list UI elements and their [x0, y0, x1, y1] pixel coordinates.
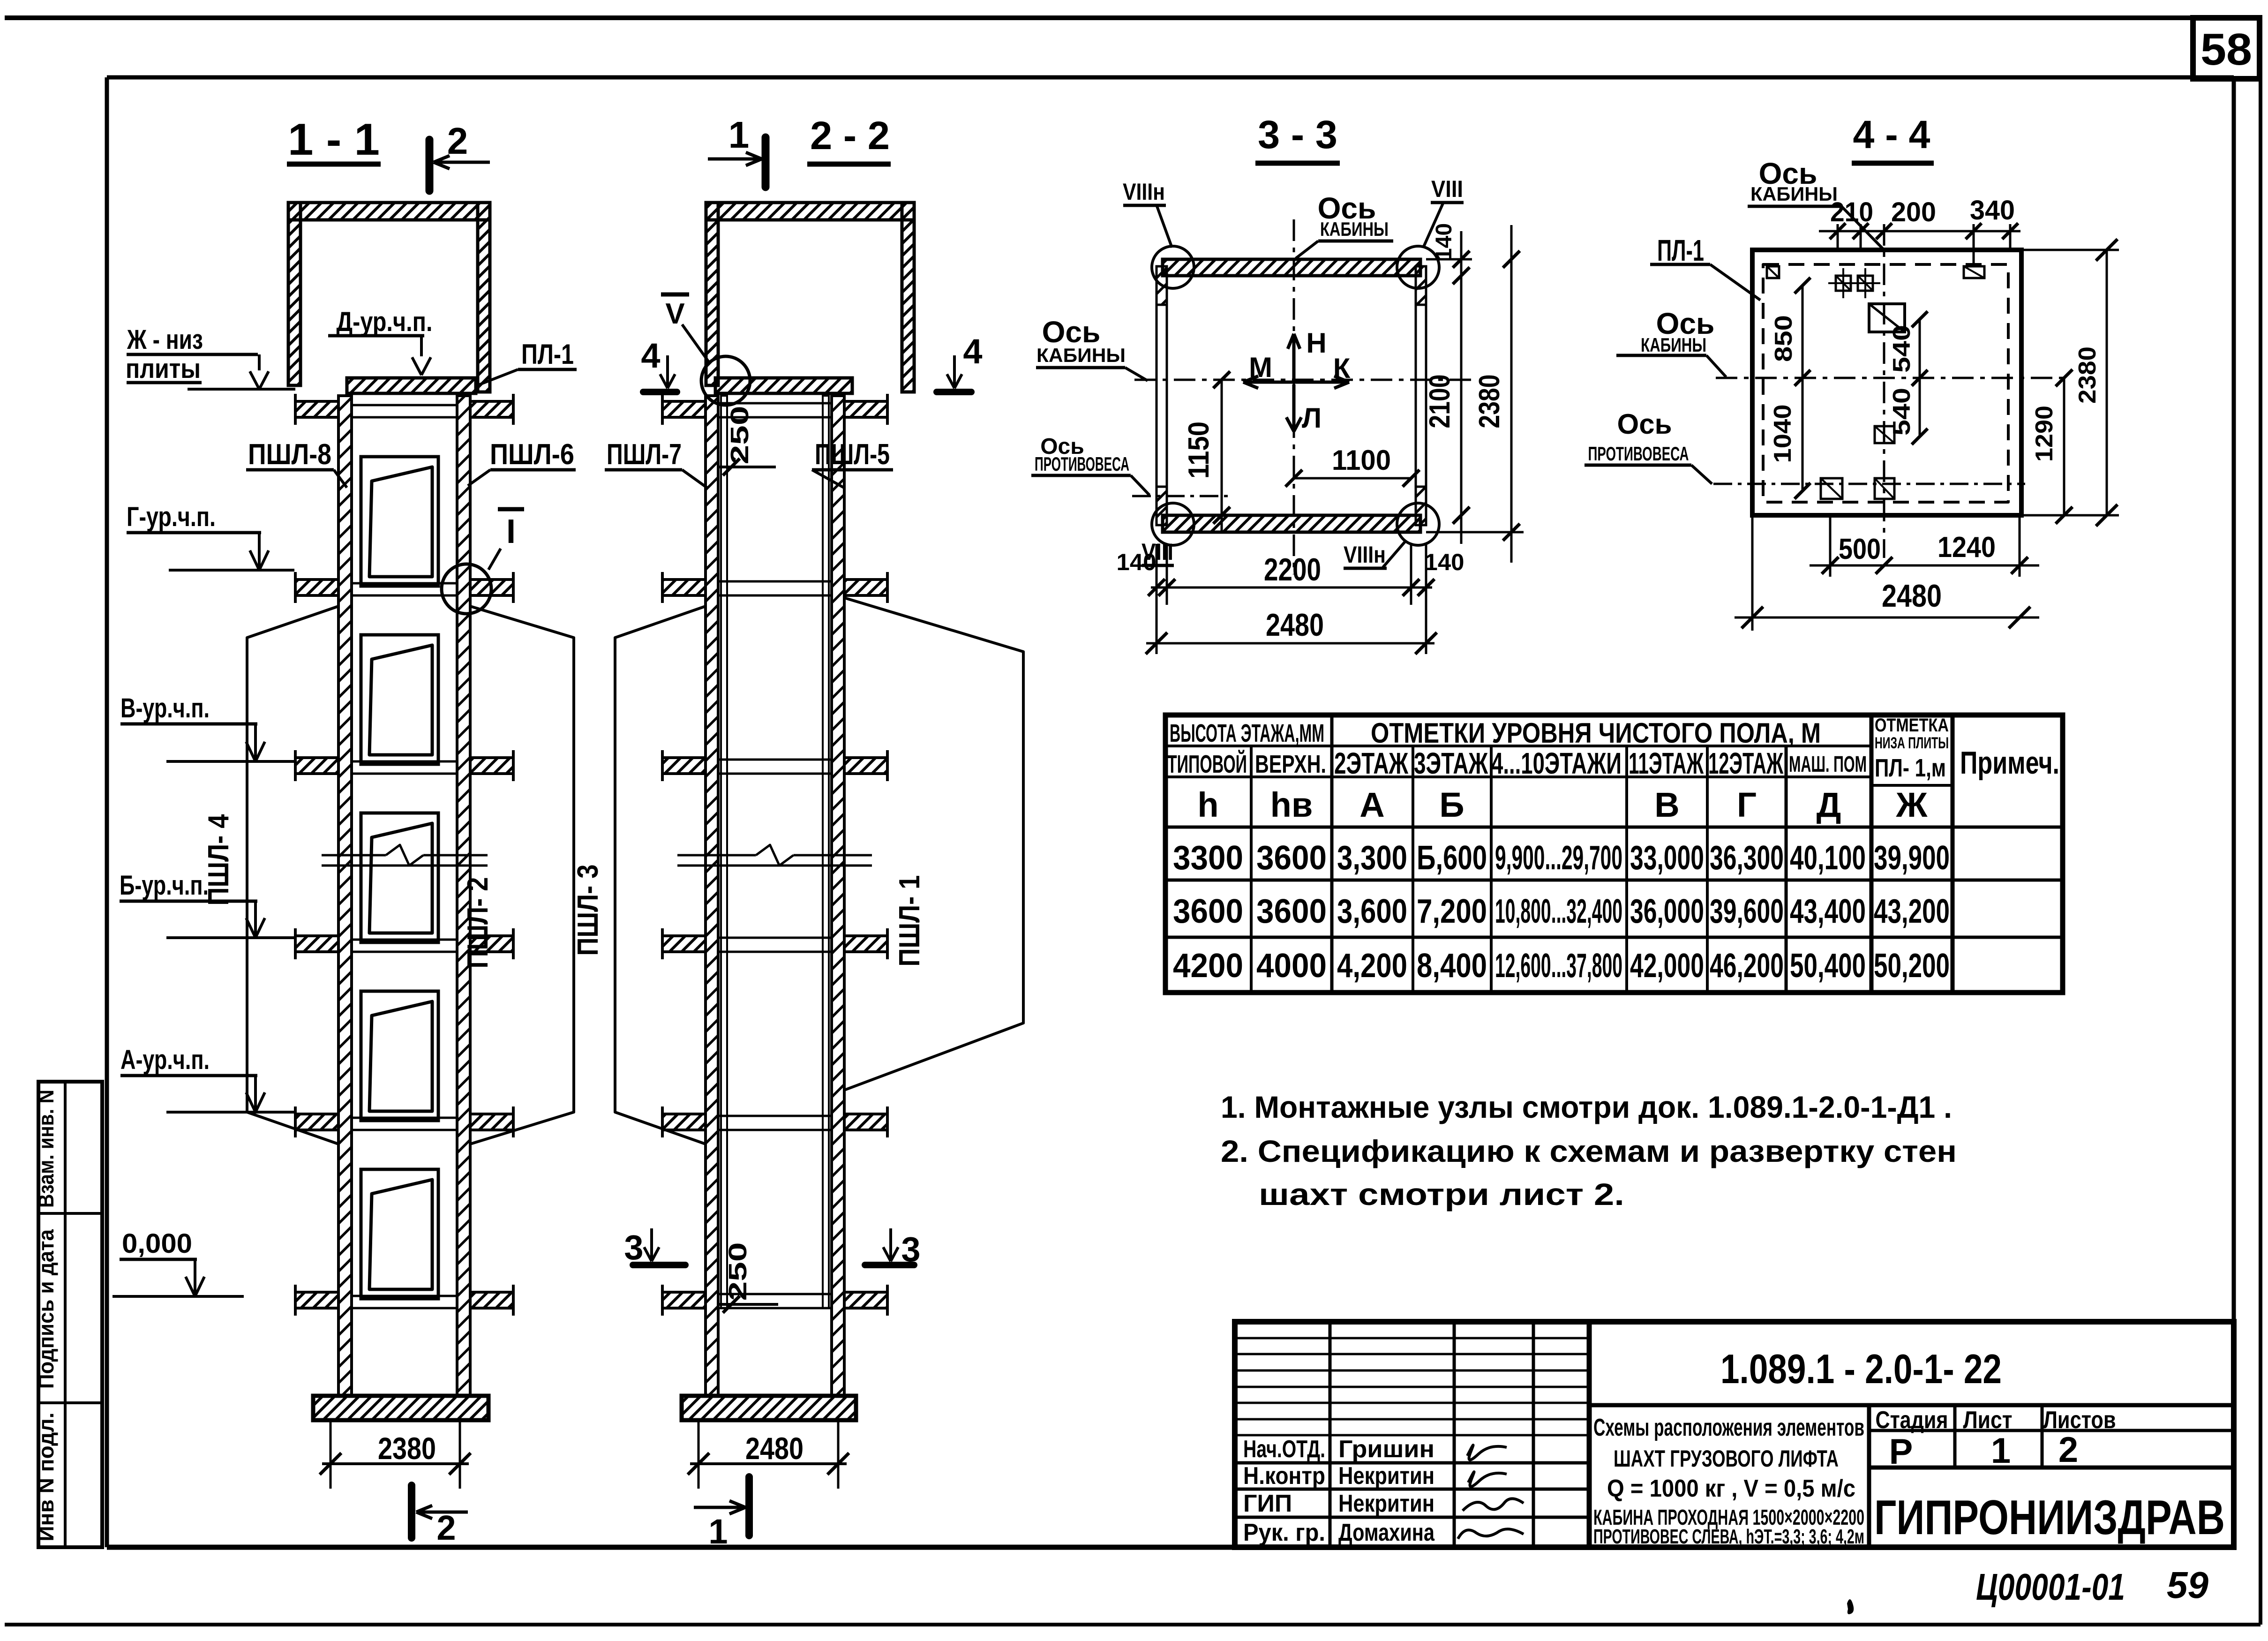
svg-text:Гришин: Гришин — [1338, 1436, 1434, 1463]
svg-text:140: 140 — [1117, 549, 1157, 575]
svg-text:hв: hв — [1270, 785, 1313, 824]
svg-text:4 - 4: 4 - 4 — [1853, 113, 1930, 157]
svg-text:Н: Н — [1306, 327, 1326, 359]
svg-text:Ось: Ось — [1617, 408, 1672, 440]
svg-text:3,300: 3,300 — [1337, 839, 1407, 877]
svg-text:ПШЛ-5: ПШЛ-5 — [815, 438, 890, 471]
svg-text:1040: 1040 — [1769, 405, 1796, 463]
svg-text:4,200: 4,200 — [1337, 947, 1407, 985]
svg-text:VIIIн: VIIIн — [1344, 542, 1386, 568]
svg-text:12ЭТАЖ: 12ЭТАЖ — [1708, 746, 1784, 780]
svg-text:Ц00001-01: Ц00001-01 — [1976, 1566, 2125, 1608]
svg-text:210: 210 — [1830, 197, 1873, 227]
svg-text:Б-ур.ч.п.: Б-ур.ч.п. — [120, 870, 209, 901]
svg-text:1.089.1 - 2.0-1- 22: 1.089.1 - 2.0-1- 22 — [1720, 1346, 2002, 1392]
svg-text:2100: 2100 — [1424, 375, 1456, 429]
svg-text:Б: Б — [1439, 785, 1464, 824]
svg-text:8,400: 8,400 — [1417, 947, 1487, 985]
svg-text:3 - 3: 3 - 3 — [1258, 113, 1337, 157]
svg-text:2380: 2380 — [378, 1431, 436, 1466]
svg-text:11ЭТАЖ: 11ЭТАЖ — [1629, 746, 1704, 780]
svg-text:3: 3 — [624, 1228, 643, 1267]
svg-text:250: 250 — [726, 406, 754, 465]
svg-text:шахт смотри лист 2.: шахт смотри лист 2. — [1259, 1177, 1624, 1212]
svg-text:ПЛ-1: ПЛ-1 — [1657, 233, 1704, 267]
svg-text:3ЭТАЖ: 3ЭТАЖ — [1414, 746, 1488, 780]
svg-text:500: 500 — [1839, 533, 1881, 565]
svg-text:Л: Л — [1302, 402, 1322, 434]
svg-text:2380: 2380 — [1473, 375, 1506, 429]
svg-text:ПШЛ- 1: ПШЛ- 1 — [894, 875, 926, 967]
svg-text:7,200: 7,200 — [1417, 893, 1487, 930]
svg-text:Q = 1000 кг , V = 0,5 м/с: Q = 1000 кг , V = 0,5 м/с — [1607, 1475, 1855, 1502]
svg-text:2. Спецификацию к схемам и р: 2. Спецификацию к схемам и развертку сте… — [1221, 1134, 1957, 1168]
svg-text:33,000: 33,000 — [1630, 839, 1704, 877]
svg-text:К: К — [1333, 353, 1351, 384]
svg-text:2: 2 — [447, 120, 468, 162]
svg-text:ВЕРХН.: ВЕРХН. — [1255, 750, 1326, 778]
svg-text:Нач.ОТД.: Нач.ОТД. — [1243, 1436, 1325, 1463]
svg-text:Ж - низ: Ж - низ — [127, 324, 203, 355]
svg-text:КАБИНЫ: КАБИНЫ — [1320, 218, 1389, 240]
svg-text:50,200: 50,200 — [1874, 947, 1950, 985]
svg-text:Ж: Ж — [1896, 785, 1928, 824]
svg-text:ПРОТИВОВЕСА: ПРОТИВОВЕСА — [1035, 453, 1129, 475]
svg-text:2480: 2480 — [1882, 578, 1942, 614]
svg-text:ПЛ-1: ПЛ-1 — [521, 339, 574, 370]
svg-text:КАБИНЫ: КАБИНЫ — [1036, 344, 1126, 366]
svg-text:2480: 2480 — [745, 1431, 804, 1466]
svg-text:2 - 2: 2 - 2 — [810, 113, 890, 158]
svg-text:Домахина: Домахина — [1338, 1519, 1435, 1546]
svg-text:1100: 1100 — [1332, 444, 1391, 476]
svg-text:3,600: 3,600 — [1337, 893, 1407, 930]
svg-text:250: 250 — [724, 1242, 752, 1301]
svg-text:200: 200 — [1891, 197, 1936, 227]
svg-text:А-ур.ч.п.: А-ур.ч.п. — [120, 1045, 210, 1075]
svg-text:h: h — [1197, 785, 1218, 824]
svg-text:Стадия: Стадия — [1876, 1407, 1948, 1434]
svg-text:I: I — [506, 513, 516, 550]
svg-text:1: 1 — [1991, 1431, 2011, 1471]
svg-text:ШАХТ ГРУЗОВОГО ЛИФТА: ШАХТ ГРУЗОВОГО ЛИФТА — [1614, 1445, 1839, 1472]
svg-text:В-ур.ч.п.: В-ур.ч.п. — [120, 693, 210, 723]
svg-text:Рук. гр.: Рук. гр. — [1243, 1519, 1325, 1546]
svg-text:50,400: 50,400 — [1790, 947, 1866, 985]
svg-text:140: 140 — [1425, 549, 1464, 575]
svg-text:540: 540 — [1888, 388, 1915, 436]
svg-text:58: 58 — [2200, 24, 2252, 75]
svg-text:850: 850 — [1770, 315, 1797, 362]
svg-text:4: 4 — [963, 332, 982, 371]
svg-text:Схемы расположения элементов: Схемы расположения элементов — [1593, 1414, 1864, 1441]
svg-text:1: 1 — [728, 114, 750, 156]
svg-text:1. Монтажные узлы смотри д: 1. Монтажные узлы смотри док. 1.089.1-2.… — [1221, 1090, 1952, 1124]
svg-text:0,000: 0,000 — [122, 1228, 192, 1259]
svg-text:36,000: 36,000 — [1630, 893, 1704, 930]
svg-text:1150: 1150 — [1183, 422, 1215, 479]
svg-text:Некритин: Некритин — [1338, 1490, 1434, 1517]
svg-text:2: 2 — [2058, 1430, 2078, 1470]
svg-text:А: А — [1359, 785, 1384, 824]
svg-text:Г: Г — [1737, 785, 1757, 824]
svg-text:Листов: Листов — [2043, 1407, 2116, 1434]
svg-text:1240: 1240 — [1938, 531, 1996, 564]
svg-text:МАШ. ПОМ: МАШ. ПОМ — [1789, 752, 1867, 777]
svg-text:43,200: 43,200 — [1874, 893, 1950, 930]
svg-text:ПШЛ-8: ПШЛ-8 — [248, 438, 331, 471]
svg-text:Н.контр: Н.контр — [1243, 1462, 1325, 1490]
svg-text:ПШЛ-6: ПШЛ-6 — [490, 438, 574, 471]
svg-text:КАБИНЫ: КАБИНЫ — [1641, 334, 1706, 356]
svg-text:НИЗА ПЛИТЫ: НИЗА ПЛИТЫ — [1875, 734, 1949, 752]
svg-text:Д-ур.ч.п.: Д-ур.ч.п. — [337, 307, 433, 337]
svg-text:ОТМЕТКА: ОТМЕТКА — [1875, 715, 1949, 736]
svg-text:VIII: VIII — [1431, 176, 1463, 202]
svg-text:Б,600: Б,600 — [1417, 839, 1487, 877]
svg-text:140: 140 — [1432, 223, 1457, 261]
svg-text:Г-ур.ч.п.: Г-ур.ч.п. — [127, 502, 216, 532]
svg-text:ПРОТИВОВЕС СЛЕВА, hЭТ.=3,3; 3,: ПРОТИВОВЕС СЛЕВА, hЭТ.=3,3; 3,6; 4,2м — [1593, 1525, 1864, 1548]
svg-text:40,100: 40,100 — [1790, 839, 1866, 877]
svg-text:59: 59 — [2167, 1564, 2208, 1606]
svg-text:1: 1 — [708, 1512, 728, 1551]
svg-text:ПШЛ-7: ПШЛ-7 — [607, 438, 682, 471]
svg-text:VIIIн: VIIIн — [1123, 179, 1165, 205]
svg-text:ТИПОВОЙ: ТИПОВОЙ — [1167, 750, 1247, 778]
svg-text:Р: Р — [1889, 1432, 1913, 1472]
svg-text:Инв N подл.: Инв N подл. — [34, 1413, 58, 1542]
svg-text:4200: 4200 — [1173, 947, 1243, 985]
svg-text:Некритин: Некритин — [1338, 1462, 1434, 1490]
svg-text:340: 340 — [1970, 195, 2015, 226]
svg-text:39,600: 39,600 — [1710, 893, 1784, 930]
svg-text:42,000: 42,000 — [1630, 947, 1704, 985]
svg-text:2480: 2480 — [1266, 607, 1324, 643]
svg-text:9,900...29,700: 9,900...29,700 — [1495, 839, 1622, 877]
svg-text:Подпись и дата: Подпись и дата — [34, 1229, 58, 1389]
svg-text:ВЫСОТА ЭТАЖА,ММ: ВЫСОТА ЭТАЖА,ММ — [1170, 719, 1324, 747]
svg-text:4: 4 — [641, 336, 660, 375]
svg-text:46,200: 46,200 — [1710, 947, 1784, 985]
svg-text:3600: 3600 — [1256, 839, 1327, 877]
svg-text:3300: 3300 — [1173, 839, 1243, 877]
svg-text:Лист: Лист — [1963, 1407, 2013, 1434]
svg-text:1 - 1: 1 - 1 — [288, 114, 380, 165]
svg-text:39,900: 39,900 — [1874, 839, 1950, 877]
svg-text:ПШЛ- 2: ПШЛ- 2 — [462, 877, 494, 969]
svg-text:ПШЛ- 3: ПШЛ- 3 — [572, 865, 604, 956]
svg-text:1290: 1290 — [2031, 406, 2058, 462]
svg-text:36,300: 36,300 — [1710, 839, 1784, 877]
svg-text:3600: 3600 — [1256, 893, 1327, 930]
svg-text:Примеч.: Примеч. — [1960, 745, 2059, 781]
svg-text:ГИПРОНИИЗДРАВ: ГИПРОНИИЗДРАВ — [1874, 1490, 2225, 1545]
svg-text:2200: 2200 — [1264, 552, 1321, 587]
svg-text:ПРОТИВОВЕСА: ПРОТИВОВЕСА — [1588, 443, 1689, 465]
svg-text:540: 540 — [1888, 325, 1915, 373]
svg-text:4...10ЭТАЖИ: 4...10ЭТАЖИ — [1491, 746, 1622, 780]
svg-text:2380: 2380 — [2074, 346, 2101, 404]
svg-text:4000: 4000 — [1256, 947, 1327, 985]
svg-text:Д: Д — [1817, 785, 1841, 824]
svg-text:КАБИНЫ: КАБИНЫ — [1750, 183, 1838, 205]
svg-text:ПЛ- 1,м: ПЛ- 1,м — [1875, 754, 1946, 782]
svg-text:12,600...37,800: 12,600...37,800 — [1495, 947, 1622, 985]
svg-text:В: В — [1654, 785, 1679, 824]
svg-text:2: 2 — [436, 1508, 456, 1547]
svg-text:Взам. инв. N: Взам. инв. N — [34, 1090, 58, 1208]
svg-text:43,400: 43,400 — [1790, 893, 1866, 930]
svg-text:10,800...32,400: 10,800...32,400 — [1495, 893, 1622, 930]
svg-text:3600: 3600 — [1173, 893, 1243, 930]
svg-text:ОТМЕТКИ УРОВНЯ ЧИСТОГО ПОЛА: ОТМЕТКИ УРОВНЯ ЧИСТОГО ПОЛА, М — [1371, 717, 1821, 749]
svg-text:ПШЛ- 4: ПШЛ- 4 — [203, 814, 235, 905]
svg-text:плиты: плиты — [126, 354, 201, 384]
svg-text:М: М — [1249, 352, 1272, 383]
svg-text:2ЭТАЖ: 2ЭТАЖ — [1334, 746, 1409, 780]
svg-text:ГИП: ГИП — [1243, 1490, 1292, 1517]
